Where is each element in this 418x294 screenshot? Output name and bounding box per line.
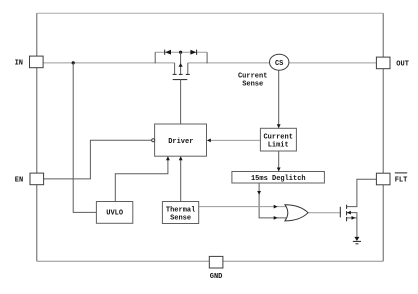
ground symbol (353, 237, 361, 244)
diode D2 (body diode, cathode to OUT) (190, 50, 196, 55)
current sense element CS (270, 54, 289, 70)
svg-text:GND: GND (210, 273, 223, 281)
pin OUT (376, 57, 390, 69)
diode D1 (body diode, cathode to IN) (165, 50, 171, 55)
device boundary box (37, 13, 383, 261)
node A junction dot on IN rail (72, 61, 75, 64)
pin FLT (active low) (376, 173, 390, 185)
wire Q1 gate lead to Driver (180, 80, 182, 124)
block Thermal Sense (162, 202, 198, 224)
svg-text:Sense: Sense (242, 80, 263, 88)
transistor Q1 source lead (187, 63, 189, 74)
pin IN (30, 56, 44, 68)
arrow Current Limit into Deglitch (277, 168, 281, 172)
wire CS to Current Limit (278, 70, 280, 128)
transistor Q1 gate plate (173, 79, 188, 81)
transistor Q2 channel segments (346, 205, 348, 222)
svg-text:EN: EN (15, 177, 23, 185)
svg-text:IN: IN (15, 59, 23, 67)
wire diode branch right to OUT rail (206, 52, 208, 63)
transistor Q1 channel segments (173, 73, 190, 75)
arrow Q2 source (points right) (352, 216, 356, 220)
block 15ms Deglitch (232, 172, 325, 184)
wire EN to Driver (inverting input) (44, 140, 152, 179)
pin GND (209, 256, 223, 268)
svg-text:OUT: OUT (396, 60, 409, 68)
arrow Q2 body (points into channel) (347, 211, 351, 215)
wire FLT pin to Q2 drain (347, 179, 377, 206)
svg-text:Current: Current (238, 72, 267, 80)
OR gate (285, 205, 308, 221)
svg-text:Driver: Driver (168, 138, 193, 146)
wire Q2 source and body to ground (347, 213, 357, 238)
pin EN (30, 173, 44, 185)
arrow UVLO into Driver (166, 156, 170, 160)
transistor Q2 gate plate (339, 207, 341, 218)
transistor Q1 pass N-FET drain lead (174, 63, 176, 74)
arrow Thermal Sense into Driver (179, 156, 183, 160)
wire IN rail (IN pin to pass FET drain) (43, 62, 175, 64)
wire Q2 source stub (347, 217, 357, 219)
inversion bubble on Driver EN input (152, 139, 155, 142)
svg-text:Sense: Sense (170, 215, 191, 223)
op-amp U1 Driver block (155, 124, 207, 156)
svg-text:FLT: FLT (395, 177, 408, 185)
arrow down on Deglitch output wire (257, 191, 261, 195)
svg-text:Current: Current (263, 133, 292, 141)
transistor Q1 body lead with up arrow (179, 52, 183, 74)
arrow into OR gate upper input (274, 205, 278, 209)
wire body-diode line (155, 51, 207, 53)
block UVLO (96, 202, 132, 224)
wire Thermal Sense to OR gate upper input (199, 206, 286, 208)
wire OUT rail (pass FET source to OUT pin) (188, 62, 377, 64)
node diode midpoint junction dot (179, 51, 182, 54)
wire Deglitch output down and right to OR gate lower input (259, 183, 286, 218)
arrow CS into Current Limit (277, 124, 281, 128)
arrow into OR gate lower input (274, 216, 278, 220)
wire diode branch left to IN rail (154, 52, 156, 63)
arrow Current Limit into Driver (207, 139, 211, 143)
svg-text:UVLO: UVLO (106, 210, 123, 218)
wire Current Limit to Driver (208, 139, 261, 141)
wire Current Limit to 15ms Deglitch (278, 151, 280, 171)
wire Thermal Sense output up to Driver (180, 157, 182, 202)
wire OR gate output to Q2 gate (308, 212, 340, 214)
svg-text:CS: CS (275, 60, 283, 68)
wire IN sense branch down to UVLO (73, 63, 96, 213)
wire UVLO output to Driver (115, 157, 168, 202)
svg-text:15ms Deglitch: 15ms Deglitch (251, 175, 306, 183)
block Current Limit (260, 128, 296, 151)
svg-text:Thermal: Thermal (166, 206, 195, 214)
svg-text:Limit: Limit (268, 142, 289, 150)
